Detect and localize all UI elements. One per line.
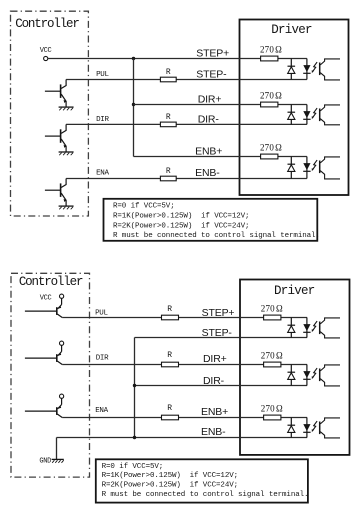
transistor Q4 (PNP) — [25, 298, 62, 317]
label ENA (bottom) — [95, 407, 108, 415]
svg-text:270Ω: 270Ω — [261, 404, 283, 414]
label PUL (bottom) — [95, 309, 108, 317]
transistor Q5 (PNP) — [25, 345, 62, 364]
phototransistor of optocoupler (STEP bottom) — [320, 318, 340, 338]
driver box (top) — [240, 20, 349, 196]
transistor Q3 (NPN) — [45, 179, 67, 206]
label DIR- (bottom) — [203, 375, 225, 387]
label 270&#937; (STEP bottom) — [261, 304, 283, 314]
svg-text:R: R — [166, 113, 171, 122]
svg-text:R=1K(Power>0.125W) if VCC=12V: R=1K(Power>0.125W) if VCC=12V; — [102, 472, 238, 480]
resistor 270&#937; (ENB top) — [261, 154, 278, 159]
phototransistor of optocoupler (STEP top) — [320, 59, 340, 80]
svg-text:270Ω: 270Ω — [260, 143, 282, 153]
svg-text:DIR-: DIR- — [203, 375, 225, 387]
svg-text:Driver: Driver — [271, 23, 312, 37]
label STEP+ (bottom) — [202, 307, 235, 319]
resistor 270&#937; (ENB bottom) — [264, 415, 281, 420]
svg-text:270Ω: 270Ω — [260, 91, 282, 101]
svg-text:R: R — [167, 404, 172, 413]
svg-text:ENB+: ENB+ — [201, 406, 228, 418]
junction node (DIR- tap) — [133, 384, 136, 387]
transistor Q2 (NPN) — [45, 124, 67, 151]
svg-text:R: R — [166, 68, 171, 77]
resistor 270&#937; (STEP bottom) — [264, 315, 281, 320]
resistor 270&#937; (STEP top) — [261, 56, 278, 61]
label ENB- (bottom) — [201, 426, 226, 438]
terminal VCC (open circle) — [60, 394, 64, 398]
label VCC — [40, 294, 52, 302]
label R (STEP-) — [166, 68, 171, 77]
svg-text:R=2K(Power>0.125W) if VCC=24V: R=2K(Power>0.125W) if VCC=24V; — [102, 482, 238, 490]
resistor R (ENB+) — [162, 415, 179, 420]
wire ENB+ (top) — [134, 156, 307, 158]
svg-text:PUL: PUL — [95, 309, 108, 317]
label DIR (top) — [96, 116, 109, 124]
ground — [59, 152, 74, 155]
note text line 3 (bottom) — [102, 482, 238, 490]
svg-text:Controller: Controller — [15, 17, 79, 31]
svg-text:R: R — [166, 167, 171, 176]
resistor R (DIR-) — [160, 122, 176, 127]
svg-text:GND: GND — [39, 458, 51, 466]
label DIR+ (top) — [198, 94, 222, 106]
label STEP+ (top) — [196, 47, 229, 59]
label DIR- (top) — [198, 113, 220, 125]
svg-text:PUL: PUL — [96, 71, 109, 79]
note text line 3 (top) — [113, 222, 249, 230]
label R (STEP+) — [167, 305, 172, 314]
wire GND bus (vertical, bottom) — [134, 338, 136, 438]
transistor Q1 (NPN) — [45, 80, 67, 107]
label 270&#937; (DIR top) — [260, 91, 282, 101]
label Controller (bottom) — [19, 275, 83, 289]
label R (DIR-) — [166, 113, 171, 122]
resistor R (STEP-) — [160, 77, 176, 82]
note text line 2 (bottom) — [102, 472, 238, 480]
phototransistor of optocoupler (DIR bottom) — [320, 365, 340, 386]
ground — [59, 107, 74, 110]
LED of optocoupler (ENB bottom) — [303, 418, 310, 438]
svg-text:Driver: Driver — [274, 284, 315, 298]
label 270&#937; (ENB top) — [260, 143, 282, 153]
wire ENB- (bottom) — [57, 437, 308, 439]
note box (bottom) — [96, 459, 308, 502]
LED of optocoupler (STEP bottom) — [303, 318, 310, 338]
note text line 4 (top) — [113, 232, 320, 240]
junction node (DIR+ tap) — [132, 103, 135, 106]
svg-text:R=1K(Power>0.125W) if VCC=12V: R=1K(Power>0.125W) if VCC=12V; — [113, 213, 249, 221]
resistor 270&#937; (DIR top) — [261, 102, 278, 107]
label Driver (bottom) — [274, 284, 315, 298]
resistor R (DIR+) — [162, 362, 179, 367]
junction node (VCC bus tap, STEP+) — [132, 57, 135, 60]
LED of optocoupler (DIR bottom) — [303, 365, 310, 386]
photon arrow (ENB top) — [312, 160, 317, 171]
photon arrow (STEP bottom) — [312, 321, 317, 332]
label 270&#937; (STEP top) — [260, 45, 282, 55]
ground (GND symbol) — [52, 459, 64, 462]
label STEP- (top) — [196, 68, 227, 80]
phototransistor of optocoupler (ENB top) — [320, 157, 340, 179]
LED of optocoupler (DIR top) — [303, 105, 310, 125]
svg-text:ENA: ENA — [96, 170, 109, 178]
label ENB- (top) — [195, 167, 220, 179]
wire VCC bus (vertical, top) — [133, 59, 135, 157]
svg-text:R must be connected to control: R must be connected to control signal te… — [113, 232, 320, 240]
svg-text:DIR+: DIR+ — [198, 94, 222, 106]
resistor R (ENB-) — [160, 176, 176, 181]
svg-text:R: R — [167, 305, 172, 314]
note text line 1 (top) — [113, 203, 175, 211]
svg-text:STEP-: STEP- — [196, 68, 227, 80]
controller box (top, dash-dot border) — [11, 11, 89, 216]
diode D (DIR bottom) — [288, 365, 296, 386]
wire DIR- (bottom) — [135, 385, 308, 387]
svg-text:VCC: VCC — [40, 294, 52, 302]
label DIR (bottom) — [96, 354, 109, 362]
svg-text:R=0 if VCC=5V;: R=0 if VCC=5V; — [102, 463, 164, 471]
resistor 270&#937; (DIR bottom) — [264, 362, 281, 367]
label R (ENB+) — [167, 404, 172, 413]
note text line 2 (top) — [113, 213, 249, 221]
label PUL (top) — [96, 71, 109, 79]
label STEP- (bottom) — [202, 327, 233, 339]
terminal VCC (open circle) — [60, 341, 64, 345]
note text line 1 (bottom) — [102, 463, 164, 471]
driver box (bottom) — [240, 280, 350, 455]
controller box (bottom, dash-dot border) — [11, 273, 90, 477]
svg-text:DIR: DIR — [96, 116, 109, 124]
svg-text:ENB-: ENB- — [195, 167, 220, 179]
svg-text:R=0 if VCC=5V;: R=0 if VCC=5V; — [113, 203, 175, 211]
svg-text:DIR: DIR — [96, 354, 109, 362]
diode D (STEP bottom) — [288, 318, 296, 338]
svg-text:DIR+: DIR+ — [203, 353, 227, 365]
diode D (STEP top) — [288, 59, 296, 80]
junction node (ENB- tap) — [133, 436, 136, 439]
transistor Q6 (PNP) — [25, 398, 62, 417]
wire DIR- (top) — [66, 123, 307, 125]
label DIR+ (bottom) — [203, 353, 227, 365]
diode D (ENB top) — [288, 157, 296, 179]
photon arrow (ENB bottom) — [312, 421, 317, 432]
label VCC (top) — [40, 47, 52, 55]
svg-text:270Ω: 270Ω — [261, 351, 283, 361]
wire DIR / DIR+ (bottom) — [62, 364, 307, 366]
svg-text:DIR-: DIR- — [198, 113, 220, 125]
label Controller (top) — [15, 17, 79, 31]
svg-text:270Ω: 270Ω — [260, 45, 282, 55]
LED of optocoupler (ENB top) — [303, 157, 310, 179]
label ENB+ (top) — [195, 146, 222, 158]
label GND — [39, 458, 51, 466]
label ENB+ (bottom) — [201, 406, 228, 418]
svg-text:STEP-: STEP- — [202, 327, 233, 339]
label ENA (top) — [96, 170, 109, 178]
wire DIR+ (top) — [134, 104, 307, 106]
svg-text:Controller: Controller — [19, 275, 83, 289]
wire STEP- (bottom) — [135, 337, 308, 339]
phototransistor of optocoupler (ENB bottom) — [320, 418, 340, 438]
resistor R (STEP+) — [162, 315, 179, 320]
wire PUL / STEP- (top) — [66, 79, 307, 81]
svg-text:STEP+: STEP+ — [202, 307, 235, 319]
svg-text:R must be connected to control: R must be connected to control signal te… — [102, 491, 309, 499]
wire VCC to STEP+ — [48, 58, 307, 60]
wire ENA / ENB+ (bottom) — [62, 417, 307, 419]
photon arrow (STEP top) — [312, 62, 317, 73]
wire ENB- (top) — [66, 178, 307, 180]
svg-text:R: R — [167, 351, 172, 360]
diode D (DIR top) — [288, 105, 296, 125]
label R (ENB-) — [166, 167, 171, 176]
svg-text:VCC: VCC — [40, 47, 52, 55]
note text line 4 (bottom) — [102, 491, 309, 499]
label 270&#937; (DIR bottom) — [261, 351, 283, 361]
ground — [59, 206, 74, 209]
label 270&#937; (ENB bottom) — [261, 404, 283, 414]
label Driver (top) — [271, 23, 312, 37]
wire PUL / STEP+ (bottom) — [62, 317, 307, 319]
terminal VCC (open circle) — [60, 294, 64, 298]
svg-text:R=2K(Power>0.125W) if VCC=24V: R=2K(Power>0.125W) if VCC=24V; — [113, 222, 249, 230]
photon arrow (DIR bottom) — [312, 368, 317, 379]
svg-text:ENB-: ENB- — [201, 426, 226, 438]
terminal VCC (open circle, top) — [44, 56, 48, 60]
diode D (ENB bottom) — [288, 418, 296, 438]
phototransistor of optocoupler (DIR top) — [320, 105, 340, 125]
svg-text:STEP+: STEP+ — [196, 47, 229, 59]
LED of optocoupler (STEP top) — [303, 59, 310, 80]
note box (top) — [104, 199, 318, 241]
wire GND riser — [56, 438, 58, 460]
photon arrow (DIR top) — [312, 108, 317, 119]
label R (DIR+) — [167, 351, 172, 360]
svg-text:270Ω: 270Ω — [261, 304, 283, 314]
svg-text:ENA: ENA — [95, 407, 108, 415]
svg-text:ENB+: ENB+ — [195, 146, 222, 158]
